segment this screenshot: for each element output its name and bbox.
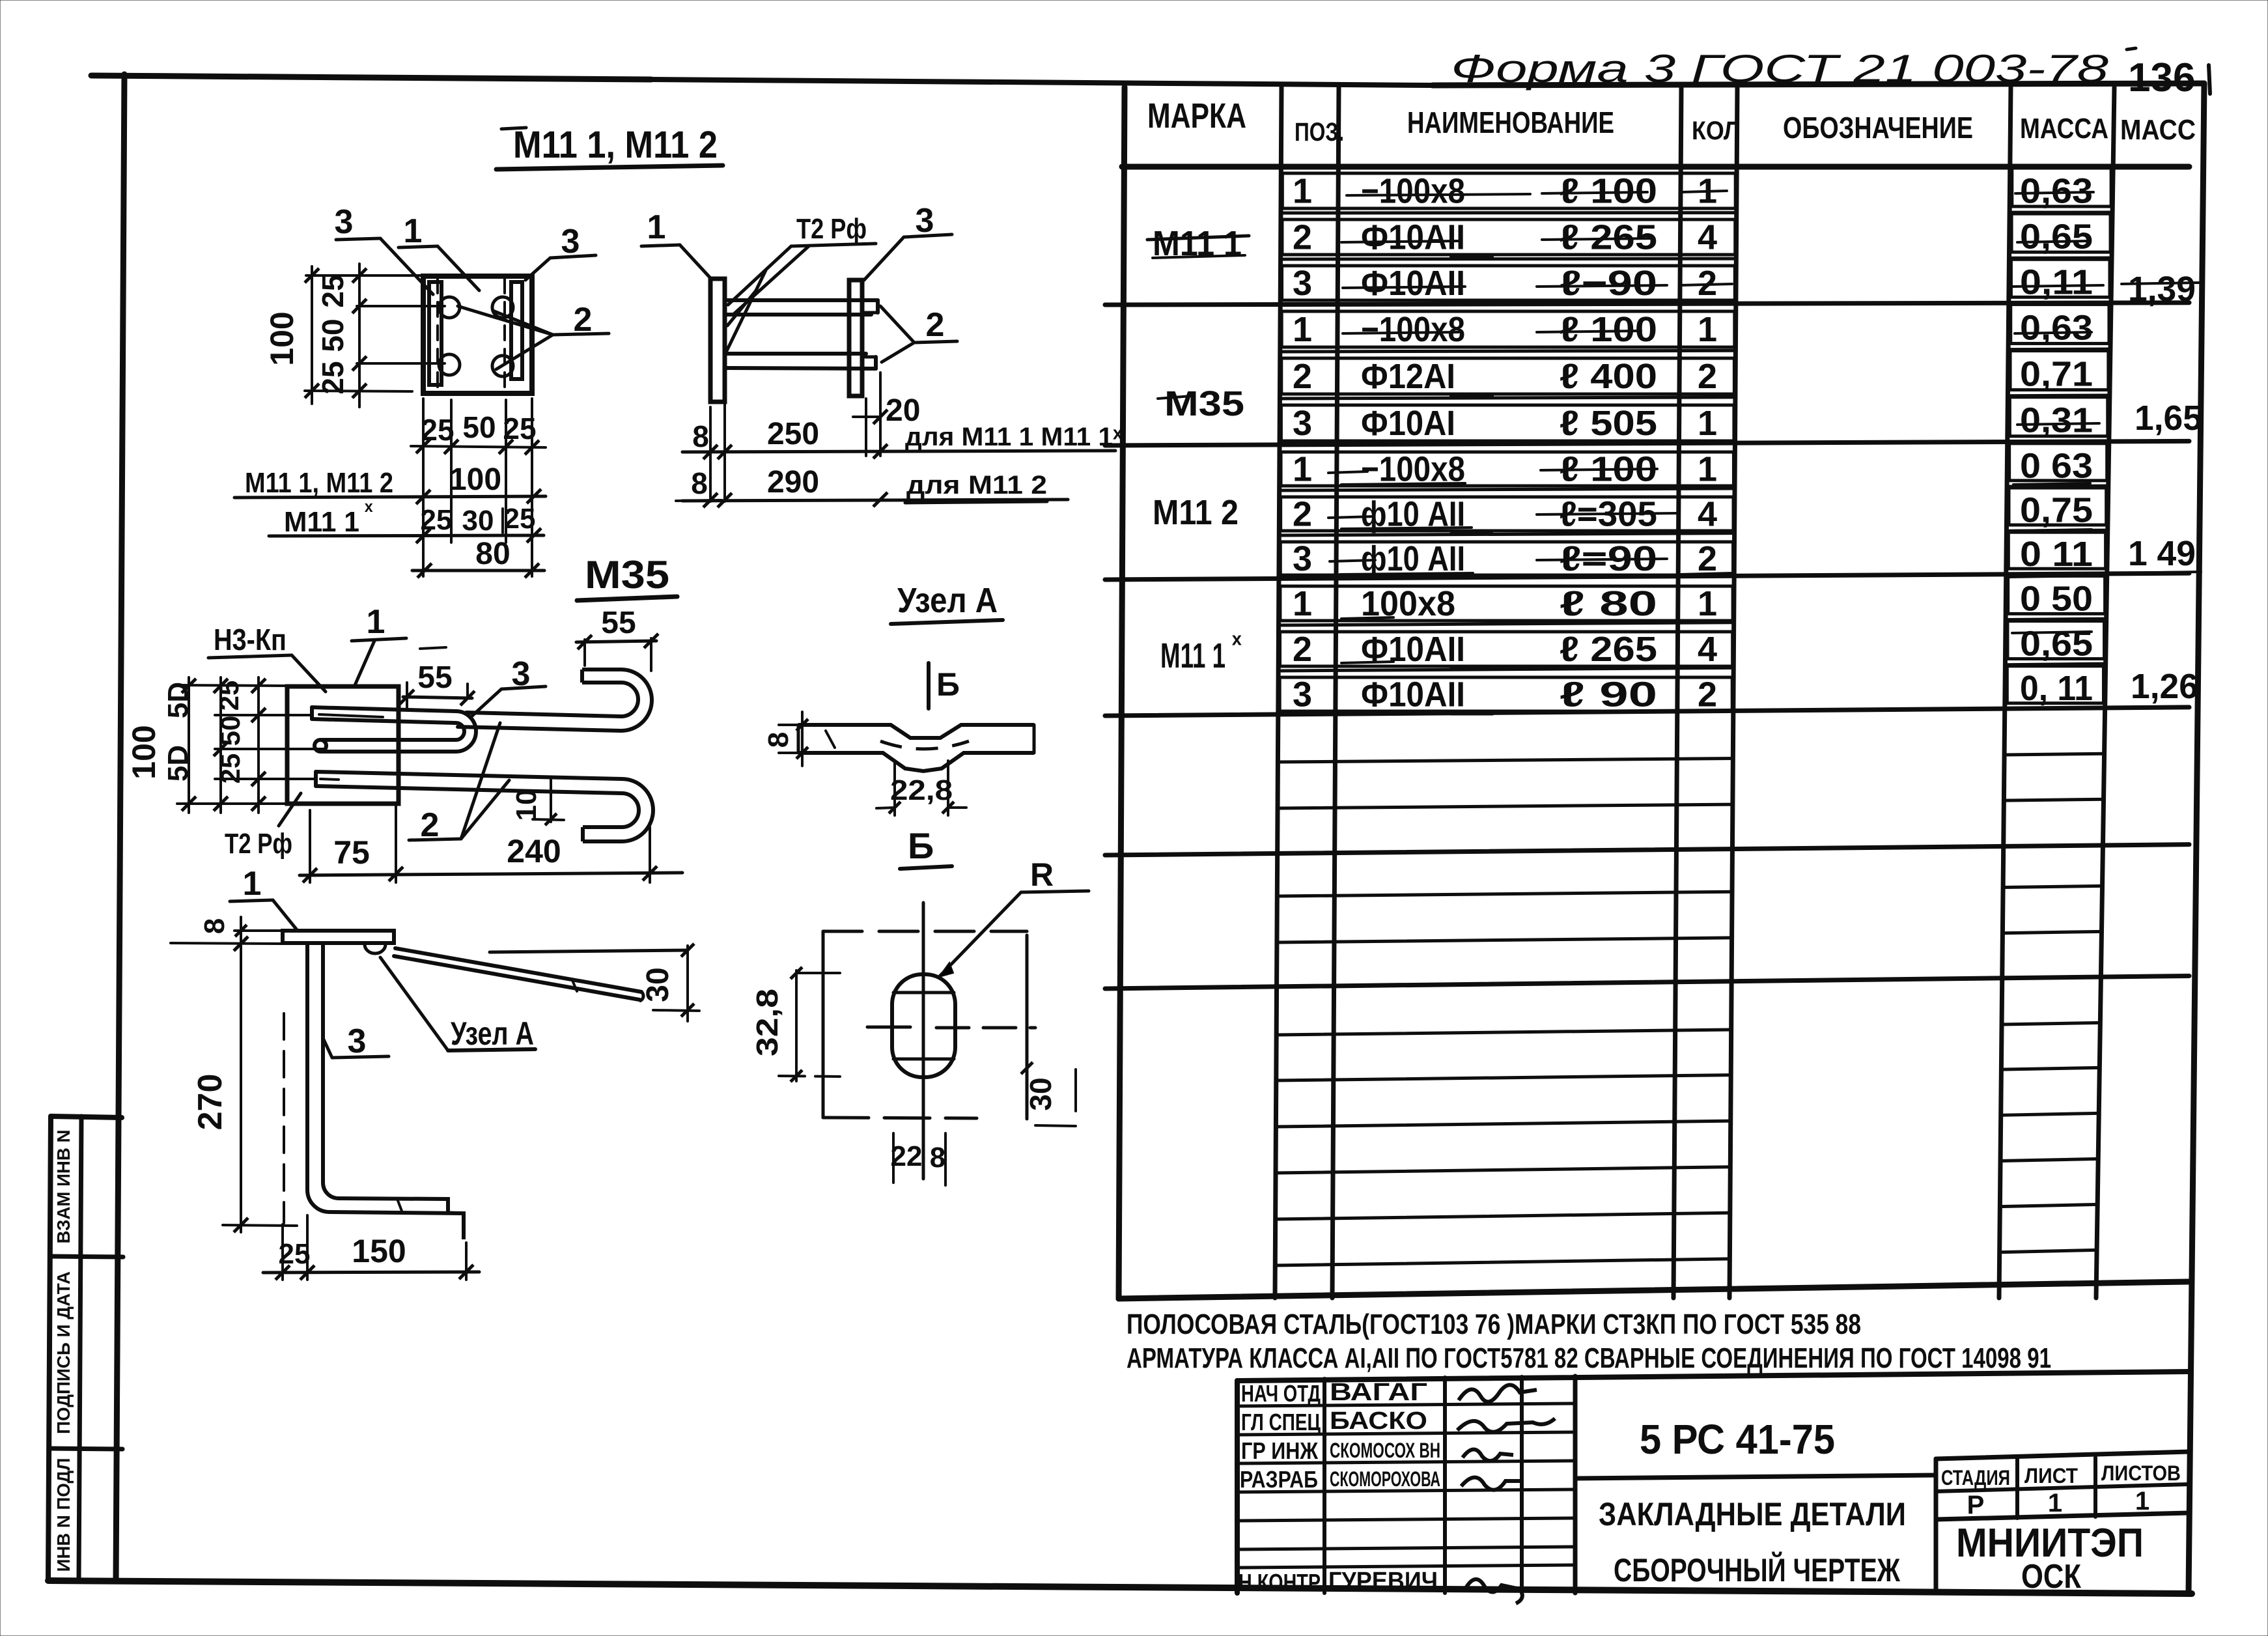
note line 1 [1127, 1308, 1861, 1340]
М35 left dim extensions [177, 685, 326, 804]
plate M11 (pos 1) top view [423, 276, 532, 393]
sheet frame right border [2189, 83, 2204, 1594]
svg-text:30: 30 [462, 505, 494, 537]
dim 20 [853, 373, 920, 456]
dim 25 50 25 vertical [316, 264, 367, 407]
leader 3 side [324, 1022, 389, 1060]
svg-text:150: 150 [352, 1233, 406, 1269]
svg-text:1: 1 [2048, 1489, 2062, 1517]
spec row 1 [1293, 172, 2093, 211]
upper rebar pos 2 side [725, 300, 878, 315]
svg-text:50: 50 [215, 716, 245, 746]
spec row 2 [1293, 218, 2093, 257]
svg-text:0 50: 0 50 [2020, 579, 2093, 618]
label row М11 1* with dims 25 30 25 [269, 498, 544, 543]
svg-text:0 63: 0 63 [2020, 446, 2093, 485]
svg-text:1: 1 [1698, 310, 1717, 349]
hairpin bend [456, 711, 476, 752]
svg-text:8: 8 [199, 918, 231, 934]
leader 3 side view [864, 202, 952, 280]
dim 80 bottom [412, 537, 544, 578]
leader 1 М35 [352, 603, 446, 685]
svg-text:ЗАКЛАДНЫЕ ДЕТАЛИ: ЗАКЛАДНЫЕ ДЕТАЛИ [1599, 1496, 1906, 1532]
svg-text:0,63: 0,63 [2020, 308, 2093, 347]
doc number 5 РС 41-75 [1640, 1416, 1835, 1463]
svg-text:100: 100 [449, 462, 501, 497]
dim 100 М35 [126, 677, 196, 813]
svg-text:МАРКА: МАРКА [1147, 96, 1246, 135]
title М35 [577, 553, 677, 600]
svg-text:Т2 Рф: Т2 Рф [225, 828, 292, 860]
svg-text:ОСК: ОСК [2021, 1558, 2081, 1596]
strike marks over rows [1328, 191, 2201, 663]
svg-text:1,39: 1,39 [2128, 270, 2196, 309]
marka М35 [1158, 384, 1244, 423]
svg-text:8: 8 [930, 1142, 945, 1174]
svg-text:НАИМЕНОВАНИЕ: НАИМЕНОВАНИЕ [1407, 106, 1614, 139]
dim box around slot [823, 931, 1027, 1119]
stage values Р 1 1 [1967, 1487, 2149, 1519]
svg-text:0,65: 0,65 [2020, 218, 2093, 257]
svg-text:32,8: 32,8 [750, 989, 784, 1056]
line under doc number [1575, 1475, 1936, 1478]
svg-text:СКОМОСОХ ВН: СКОМОСОХ ВН [1330, 1439, 1440, 1462]
svg-text:ˣ: ˣ [364, 498, 373, 522]
svg-text:Форма 3 ГОСТ 21 003-78: Форма 3 ГОСТ 21 003-78 [1451, 47, 2109, 91]
totals column masses [2128, 270, 2202, 706]
spec table header texts [1147, 96, 2196, 147]
spec table data row boxes [1280, 168, 2111, 711]
svg-text:2: 2 [1698, 675, 1717, 714]
svg-text:ℓ 80: ℓ 80 [1560, 584, 1657, 623]
svg-text:8: 8 [763, 732, 794, 748]
svg-text:3: 3 [335, 203, 354, 241]
svg-text:4: 4 [1698, 495, 1717, 534]
label R with leader [939, 856, 1089, 977]
left dim extension lines [305, 275, 445, 391]
svg-text:5D: 5D [162, 745, 194, 782]
svg-text:М35: М35 [585, 553, 669, 597]
rod pos 3 with hook [458, 670, 652, 731]
svg-text:1: 1 [1293, 450, 1312, 489]
svg-text:240: 240 [507, 833, 561, 869]
spec row 3 [1293, 262, 2093, 303]
svg-text:ОБОЗНАЧЕНИЕ: ОБОЗНАЧЕНИЕ [1783, 111, 1973, 145]
title Узел А detail [891, 581, 1003, 624]
svg-text:3: 3 [1293, 675, 1312, 714]
dim 100 vertical left [264, 266, 319, 404]
svg-text:1: 1 [1698, 584, 1717, 623]
svg-text:25: 25 [504, 503, 536, 535]
dashed mid line of dip [880, 741, 969, 749]
svg-text:М11 1: М11 1 [1160, 636, 1225, 675]
org name МНИИТЭП [1956, 1521, 2144, 1566]
svg-text:5 РС 41-75: 5 РС 41-75 [1640, 1416, 1835, 1463]
label row М11 1, М11 2 with dim 100 [234, 462, 546, 504]
svg-text:0, 11: 0, 11 [2020, 669, 2093, 708]
spec table group lines [1105, 167, 2189, 1299]
slot centerlines dashed [438, 279, 505, 391]
svg-text:4: 4 [1698, 630, 1717, 669]
svg-text:РАЗРАБ: РАЗРАБ [1240, 1466, 1318, 1493]
svg-text:ПОЛОСОВАЯ СТАЛЬ(ГОСТ103 76 )М: ПОЛОСОВАЯ СТАЛЬ(ГОСТ103 76 )МАРКИ СТ3КП … [1127, 1308, 1861, 1340]
hairpin bar lower leg [315, 740, 456, 752]
spec table vertical rules [1119, 87, 2114, 1299]
svg-text:КОЛ: КОЛ [1692, 117, 1740, 145]
svg-text:250: 250 [767, 417, 819, 451]
svg-text:1: 1 [1293, 310, 1312, 349]
svg-text:1: 1 [1293, 172, 1312, 211]
svg-text:−100x8: −100x8 [1361, 310, 1465, 349]
lower rod pos 2 with hook [316, 772, 653, 841]
dim 10 hook lower [511, 779, 564, 825]
label Т2 Рф М35 [225, 793, 301, 860]
sidebar label ВЗАМ ИНВ N [53, 1130, 74, 1244]
org dept ОСК [2021, 1558, 2081, 1596]
svg-text:для М11 2: для М11 2 [906, 471, 1047, 500]
dashed centerline [283, 1013, 285, 1223]
dims 75 240 М35 [300, 804, 682, 882]
leader 3 М35 [470, 655, 546, 718]
svg-text:80: 80 [475, 537, 510, 571]
spec row 8 [1293, 491, 2093, 534]
dim 22,8 node A [876, 761, 966, 815]
svg-text:55: 55 [417, 660, 452, 695]
marka М11 1x [1160, 628, 1242, 675]
sidebar outline [48, 1116, 122, 1581]
dim 25 50 25 bottom [411, 410, 546, 455]
spec row 9 [1293, 535, 2093, 578]
svg-text:ℓ 100: ℓ 100 [1560, 310, 1657, 349]
dim row 8 290 for M11 2 [676, 465, 1068, 507]
svg-text:1,65: 1,65 [2135, 399, 2202, 438]
stage headers [1941, 1461, 2181, 1489]
svg-text:ГУРЕВИЧ: ГУРЕВИЧ [1328, 1568, 1438, 1595]
svg-text:ПОЗ.: ПОЗ. [1295, 118, 1344, 147]
dim 55 hook [576, 606, 658, 671]
svg-text:55: 55 [601, 606, 636, 640]
svg-text:290: 290 [767, 465, 819, 500]
svg-text:Узел А: Узел А [897, 581, 998, 620]
slot hole oval [892, 974, 955, 1077]
svg-text:СБОРОЧНЫЙ ЧЕРТЕЖ: СБОРОЧНЫЙ ЧЕРТЕЖ [1614, 1551, 1901, 1588]
svg-text:2: 2 [1293, 357, 1312, 396]
svg-text:Ф10АI: Ф10АI [1361, 404, 1455, 443]
svg-text:М11 1: М11 1 [284, 506, 359, 538]
signature block verticals [1324, 1376, 1575, 1593]
label Т2 Рф [728, 213, 876, 314]
sidebar label ПОДПИСЬ И ДАТА [53, 1271, 74, 1434]
svg-text:25: 25 [316, 274, 350, 307]
sheet frame left border [116, 74, 124, 1581]
svg-text:М11 2: М11 2 [1153, 493, 1239, 532]
form note Форма 3 ГОСТ 21.003-78 [1451, 47, 2109, 91]
sidebar label ИНВ N ПОДЛ [53, 1458, 74, 1572]
svg-text:22,8: 22,8 [890, 774, 953, 806]
svg-text:Н КОНТР: Н КОНТР [1239, 1569, 1321, 1596]
doc title СБОРОЧНЫЙ ЧЕРТЕЖ [1614, 1551, 1901, 1588]
svg-text:М11 1, М11 2: М11 1, М11 2 [513, 124, 718, 166]
sheet frame top border [91, 76, 2204, 85]
svg-text:0,71: 0,71 [2020, 355, 2093, 394]
svg-text:ℓ−90: ℓ−90 [1560, 264, 1657, 303]
svg-text:75: 75 [333, 834, 370, 871]
svg-text:25: 25 [215, 754, 245, 784]
marka М11 1 [1147, 224, 1249, 263]
svg-text:ВАГАГ: ВАГАГ [1330, 1379, 1427, 1406]
dim 8 side [171, 917, 283, 956]
svg-text:для М11 1 М11 1ˣ: для М11 1 М11 1ˣ [905, 423, 1123, 451]
plate M35 pos 1 [287, 686, 399, 804]
svg-text:Б: Б [908, 825, 934, 866]
title Б lower [900, 825, 952, 869]
svg-text:ℓ 90: ℓ 90 [1560, 675, 1657, 714]
M11 side view anchor plate pos 3 [849, 280, 862, 396]
svg-text:Ф12АI: Ф12АI [1361, 357, 1455, 396]
svg-text:100: 100 [264, 311, 300, 365]
svg-text:0,31: 0,31 [2020, 401, 2093, 440]
svg-text:1: 1 [1293, 584, 1312, 623]
leader 3 right [525, 223, 596, 280]
svg-text:3: 3 [1293, 404, 1312, 443]
svg-text:СТАДИЯ: СТАДИЯ [1941, 1466, 2010, 1489]
leader 3 left [335, 203, 433, 294]
svg-text:НАЧ ОТД: НАЧ ОТД [1241, 1380, 1321, 1407]
svg-text:М35: М35 [1164, 384, 1244, 423]
svg-text:ˣ: ˣ [1231, 628, 1242, 657]
vertical centerline [922, 903, 925, 1179]
svg-text:2: 2 [1698, 357, 1717, 396]
leader 2 side view [880, 306, 957, 362]
svg-text:ГЛ СПЕЦ: ГЛ СПЕЦ [1241, 1409, 1321, 1435]
side view plate pos 1 [283, 931, 394, 943]
svg-text:МАССА: МАССА [2020, 113, 2108, 145]
dim 8 node A [763, 712, 835, 766]
plate section with dip [798, 725, 1034, 771]
dim 25 50 25 М35 [214, 677, 266, 813]
svg-text:0,65: 0,65 [2020, 625, 2093, 664]
svg-text:50: 50 [316, 318, 350, 352]
anchor strip right (pos 3) [511, 282, 522, 379]
dim 22 8 bottom [891, 1133, 946, 1185]
dim 55 hairpin [400, 660, 475, 710]
spec row 10 [1293, 579, 2093, 623]
svg-text:Р: Р [1967, 1491, 1985, 1519]
svg-text:МАСС: МАСС [2120, 114, 2196, 146]
rebar sections (pos 2) four circles [439, 297, 513, 376]
bottom dim extension verticals [423, 399, 532, 576]
svg-text:Н3-Кп: Н3-Кп [214, 623, 287, 656]
label Узел А [380, 957, 535, 1052]
leader 2 with three lines [458, 301, 609, 369]
weld diagonals [725, 270, 766, 355]
svg-text:1: 1 [2135, 1487, 2149, 1516]
sheet frame bottom border [48, 1581, 2192, 1594]
weld bump [365, 944, 385, 953]
svg-text:Ф10АII: Ф10АII [1361, 264, 1465, 303]
M11 side view plate pos 1 [710, 279, 725, 402]
svg-text:25: 25 [279, 1238, 311, 1270]
dim 30 b-detail [1021, 1062, 1076, 1126]
svg-text:ВЗАМ ИНВ N: ВЗАМ ИНВ N [53, 1130, 74, 1244]
svg-text:25: 25 [503, 412, 536, 445]
leader 1 side view [641, 208, 711, 279]
svg-text:25: 25 [421, 413, 454, 447]
section mark Б upper [929, 663, 960, 709]
svg-text:ПОДПИСЬ И ДАТА: ПОДПИСЬ И ДАТА [53, 1271, 74, 1434]
dim row 8 250 for M11 1 [682, 402, 1123, 501]
svg-text:8: 8 [692, 419, 709, 453]
svg-text:СКОМОРОХОВА: СКОМОРОХОВА [1330, 1467, 1440, 1491]
svg-text:100: 100 [126, 725, 162, 779]
note line 2 [1127, 1342, 2051, 1374]
signatures squiggles [1457, 1385, 1555, 1603]
lower rebar pos 2 side [725, 354, 876, 369]
leader 1 side [230, 865, 298, 931]
svg-text:30: 30 [641, 967, 675, 1002]
svg-text:−100x8: −100x8 [1361, 172, 1465, 211]
svg-text:8: 8 [691, 466, 708, 500]
svg-text:2: 2 [1293, 218, 1312, 257]
svg-text:1 49: 1 49 [2128, 534, 2196, 573]
title М11 1, М11 2 [496, 124, 723, 169]
svg-text:25: 25 [214, 681, 244, 711]
channel bar pos 3 side view [307, 943, 464, 1239]
dim 30 right [490, 944, 699, 1021]
svg-text:3: 3 [1293, 539, 1312, 578]
signature texts [1239, 1379, 1440, 1596]
svg-text:3: 3 [348, 1022, 367, 1060]
svg-text:136: 136 [2128, 55, 2195, 100]
svg-text:АРМАТУРА КЛАССА АI,АII ПО ГОС: АРМАТУРА КЛАССА АI,АII ПО ГОСТ5781 82 СВ… [1127, 1342, 2051, 1374]
svg-text:ЛИСТ: ЛИСТ [2024, 1464, 2078, 1488]
svg-text:30: 30 [1024, 1077, 1057, 1110]
spec row 4 [1293, 308, 2093, 349]
label Н3-Кп [208, 623, 326, 692]
svg-text:270: 270 [191, 1074, 229, 1131]
spec row 12 [1293, 669, 2093, 714]
spec row 6 [1293, 401, 2093, 443]
svg-text:Ф10АII: Ф10АII [1361, 218, 1465, 257]
spec row 5 [1293, 355, 2093, 396]
svg-text:3: 3 [1293, 264, 1312, 303]
svg-text:1: 1 [1698, 450, 1717, 489]
svg-text:2: 2 [1293, 630, 1312, 669]
svg-text:1: 1 [367, 603, 385, 641]
svg-text:ℓ 265: ℓ 265 [1560, 630, 1657, 669]
svg-text:1: 1 [243, 865, 262, 903]
svg-text:2: 2 [926, 306, 945, 344]
svg-text:1: 1 [647, 208, 666, 246]
svg-text:Т2 Рф: Т2 Рф [796, 213, 867, 245]
svg-text:ℓ 505: ℓ 505 [1560, 404, 1657, 443]
dim 270 [191, 937, 297, 1232]
svg-text:4: 4 [1698, 218, 1717, 257]
spec row 11 [1293, 625, 2093, 669]
stage block [1936, 1452, 2189, 1593]
sidebar row line 1 [50, 1256, 123, 1257]
signature block rows [1237, 1403, 1575, 1568]
title block outline [1237, 1372, 2189, 1593]
svg-text:0,11: 0,11 [2020, 262, 2093, 302]
svg-text:25: 25 [316, 361, 350, 394]
svg-text:Ф10АII: Ф10АII [1361, 675, 1465, 714]
dims 25 150 bottom [263, 1215, 479, 1280]
svg-text:1: 1 [1698, 404, 1717, 443]
svg-text:10: 10 [511, 789, 542, 821]
svg-text:ЛИСТОВ: ЛИСТОВ [2101, 1461, 2181, 1485]
svg-text:R: R [1030, 856, 1054, 893]
leader 2 М35 [409, 723, 509, 844]
sidebar row line 2 [49, 1448, 122, 1449]
doc title ЗАКЛАДНЫЕ ДЕТАЛИ [1599, 1496, 1906, 1532]
anchor strip left (pos 3) [429, 282, 441, 385]
svg-text:ИНВ N ПОДЛ: ИНВ N ПОДЛ [53, 1458, 74, 1572]
svg-text:0,75: 0,75 [2020, 491, 2093, 530]
svg-text:Б: Б [936, 666, 960, 703]
svg-text:ℓ 400: ℓ 400 [1560, 357, 1657, 396]
svg-text:2: 2 [1293, 495, 1312, 534]
roman numeral underlines [1451, 257, 1492, 714]
diagonal anchor bar side view [394, 948, 643, 1001]
svg-text:Узел А: Узел А [451, 1015, 534, 1052]
svg-text:5D: 5D [162, 682, 194, 718]
leader 1 [399, 212, 479, 290]
horizontal centerline [867, 1027, 1035, 1028]
svg-text:1,26: 1,26 [2131, 667, 2198, 706]
dim 32,8 [750, 967, 840, 1082]
svg-text:М11 1, М11 2: М11 1, М11 2 [245, 467, 393, 499]
svg-text:0 11: 0 11 [2020, 535, 2093, 574]
hairpin bar upper leg [312, 707, 456, 723]
sheet number 136 [2127, 48, 2210, 100]
svg-text:22: 22 [891, 1140, 923, 1172]
svg-text:1: 1 [404, 212, 423, 250]
svg-text:50: 50 [462, 410, 496, 444]
svg-text:БАСКО: БАСКО [1330, 1407, 1427, 1435]
marka М11 2 [1153, 493, 1239, 532]
svg-text:25: 25 [421, 504, 453, 536]
spec row 7 [1293, 446, 2093, 488]
dim 50 50 М35 [162, 677, 228, 813]
svg-text:ГР ИНЖ: ГР ИНЖ [1241, 1437, 1318, 1464]
spec table row lines [1275, 212, 2112, 1265]
